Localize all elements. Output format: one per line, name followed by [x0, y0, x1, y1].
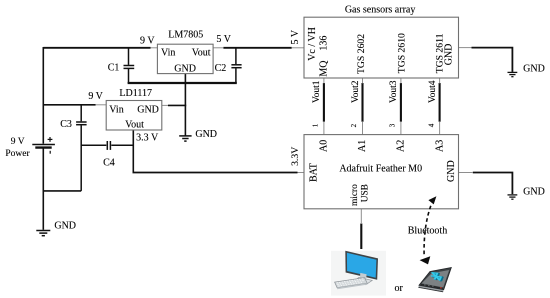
svg-text:Vout: Vout [192, 48, 211, 59]
svg-text:4: 4 [427, 123, 435, 127]
svg-text:Gas sensors array: Gas sensors array [345, 5, 416, 16]
svg-text:Adafruit Feather M0: Adafruit Feather M0 [339, 163, 422, 174]
svg-text:GND: GND [137, 105, 159, 116]
svg-text:Vout1: Vout1 [312, 80, 322, 103]
svg-text:9 V: 9 V [11, 137, 25, 147]
svg-text:9 V: 9 V [140, 35, 155, 46]
svg-text:5 V: 5 V [216, 34, 231, 45]
svg-text:TGS 2602: TGS 2602 [356, 34, 367, 74]
svg-text:Bluetooth: Bluetooth [408, 226, 447, 237]
svg-text:or: or [395, 283, 404, 294]
svg-text:C2: C2 [215, 63, 227, 74]
svg-text:LD1117: LD1117 [119, 88, 152, 99]
svg-text:Power: Power [5, 149, 30, 159]
svg-text:Vc / VH: Vc / VH [307, 27, 318, 61]
svg-text:A1: A1 [357, 140, 368, 152]
svg-text:Vout3: Vout3 [389, 80, 399, 103]
svg-text:A2: A2 [396, 140, 407, 152]
svg-text:Vout2: Vout2 [351, 80, 361, 103]
svg-text:GND: GND [444, 44, 455, 66]
svg-text:Vin: Vin [109, 105, 123, 116]
svg-text:136: 136 [319, 36, 330, 51]
svg-text:Vout4: Vout4 [428, 80, 438, 103]
svg-text:3.3 V: 3.3 V [136, 133, 159, 144]
svg-text:3.3V: 3.3V [290, 147, 301, 166]
svg-text:A3: A3 [434, 140, 445, 152]
svg-text:micro: micro [350, 184, 360, 206]
svg-text:C1: C1 [108, 63, 120, 74]
svg-text:Vin: Vin [161, 48, 175, 59]
svg-text:GND: GND [174, 63, 196, 74]
svg-text:C4: C4 [103, 157, 115, 168]
svg-text:3: 3 [389, 123, 397, 127]
svg-text:C3: C3 [60, 119, 72, 130]
svg-text:GND: GND [523, 186, 545, 197]
svg-text:2: 2 [350, 123, 358, 127]
svg-text:MQ: MQ [319, 60, 330, 77]
svg-text:GND: GND [523, 64, 545, 75]
svg-text:Vout: Vout [125, 120, 144, 131]
svg-text:9 V: 9 V [88, 91, 103, 102]
svg-text:BAT: BAT [309, 163, 320, 182]
svg-text:GND: GND [195, 129, 217, 140]
svg-text:1: 1 [312, 123, 320, 127]
svg-text:A0: A0 [319, 140, 330, 152]
svg-text:5 V: 5 V [290, 29, 301, 44]
svg-text:GND: GND [54, 221, 76, 232]
svg-text:GND: GND [446, 160, 457, 182]
svg-text:TGS 2610: TGS 2610 [396, 33, 407, 73]
svg-text:USB: USB [360, 184, 370, 202]
svg-text:LM7805: LM7805 [168, 29, 203, 40]
